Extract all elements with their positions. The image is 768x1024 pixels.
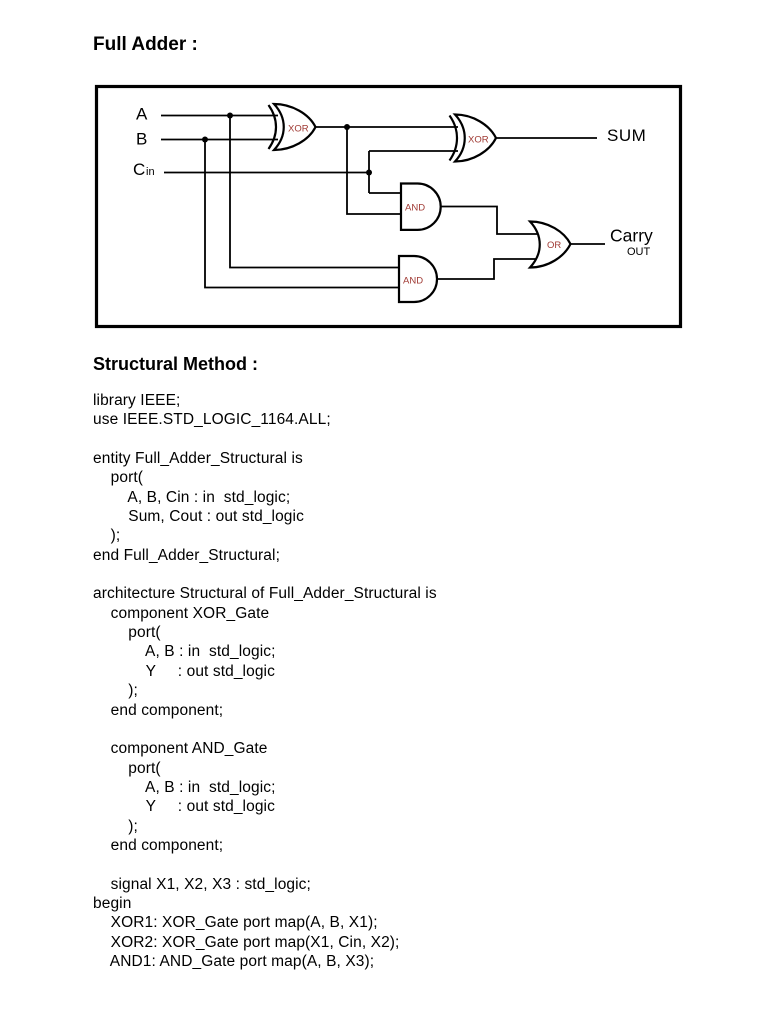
wire Carry output	[570, 243, 605, 245]
svg-text:OUT: OUT	[627, 246, 651, 258]
wire Cin branch vertical	[368, 151, 370, 193]
xor-gate XOR2 shape	[450, 115, 497, 162]
wire SUM output	[496, 137, 597, 139]
wire AND2 output to OR bottom input	[437, 259, 539, 279]
heading "Full Adder :"	[93, 35, 198, 54]
svg-text:SUM: SUM	[607, 126, 646, 145]
junction Cin	[366, 170, 372, 176]
junction X1	[344, 124, 350, 130]
svg-text:A: A	[136, 105, 148, 124]
wire B to AND2 bottom input	[205, 140, 400, 288]
svg-text:OR: OR	[547, 240, 561, 251]
wire Cin to XOR2 bottom input	[369, 150, 458, 152]
svg-text:AND: AND	[405, 203, 425, 214]
svg-text:Carry: Carry	[610, 226, 653, 246]
svg-text:B: B	[136, 130, 147, 149]
or-gate OR1 shape	[530, 222, 571, 268]
svg-text:in: in	[146, 166, 155, 178]
wire Cin input	[164, 172, 369, 174]
VHDL code block	[93, 391, 437, 971]
xor-gate XOR1 shape	[269, 104, 316, 150]
wire B input	[161, 139, 278, 141]
svg-text:XOR: XOR	[468, 135, 489, 146]
wire A input	[161, 115, 278, 117]
and-gate AND1 shape	[401, 184, 441, 230]
wire A to AND2 top input	[230, 116, 400, 268]
wire AND1 output to OR top input	[441, 207, 539, 235]
schematic frame	[97, 87, 681, 327]
wire X1 to AND1 bottom input	[347, 127, 402, 214]
junction A	[227, 113, 233, 119]
and-gate AND2 shape	[399, 256, 437, 302]
svg-text:XOR: XOR	[288, 124, 309, 135]
junction B	[202, 137, 208, 143]
heading "Structural Method :"	[93, 355, 258, 373]
wire Cin to AND1 top input	[369, 192, 402, 194]
svg-text:AND: AND	[403, 276, 423, 287]
svg-text:C: C	[133, 160, 145, 179]
wire X1: XOR1 output to XOR2 top input	[315, 126, 458, 128]
